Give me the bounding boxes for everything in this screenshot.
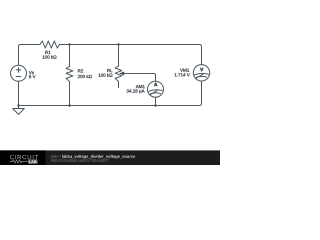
- wire top rail right segment: [60, 45, 202, 65]
- node top RL: [117, 43, 119, 45]
- wire AM1 bottom lead: [155, 97, 157, 105]
- wire top rail left segment: [19, 45, 41, 66]
- resistor R1: [40, 41, 60, 48]
- circuit schematic canvas: [0, 0, 220, 165]
- wire RL top lead: [118, 45, 120, 67]
- value RL 100 kOhm: [99, 73, 113, 76]
- wire R2 top lead: [69, 45, 71, 67]
- logo badge LAB box: [28, 159, 38, 164]
- resistor R2: [66, 67, 73, 82]
- value R1 100 kOhm: [43, 55, 57, 58]
- footer circuit name: [62, 155, 135, 159]
- label R1: [45, 51, 50, 54]
- node bottom R2: [68, 104, 70, 106]
- RL bottom stub: [118, 82, 120, 88]
- label AM1: [136, 85, 145, 88]
- wire left rail lower: [18, 81, 20, 105]
- ground: [13, 106, 25, 115]
- logo box: [0, 150, 46, 165]
- wire R2 bottom lead: [69, 82, 71, 106]
- voltmeter VM1: [193, 65, 209, 81]
- node ground tap: [17, 104, 19, 106]
- potentiometer RL: [115, 66, 122, 82]
- value VM1 1.714 V: [175, 73, 190, 76]
- ammeter letter A: [154, 83, 157, 86]
- logo resistor glyph: [10, 160, 28, 163]
- value Vs 6 V: [29, 75, 35, 78]
- logo badge LAB text: [29, 160, 37, 163]
- wire RL wiper to ammeter: [124, 74, 156, 82]
- wire bottom rail: [19, 81, 202, 106]
- footer bar: [0, 150, 220, 165]
- logo word CIRCUIT: [10, 155, 38, 159]
- RL wiper arrow: [119, 72, 124, 76]
- value R2 200 kOhm: [78, 75, 92, 78]
- node top R2: [68, 43, 70, 45]
- voltmeter letter V: [200, 68, 203, 71]
- node bottom AM1: [154, 104, 156, 106]
- label RL: [107, 69, 112, 72]
- voltage source Vs: [11, 65, 27, 81]
- value AM1 34.28 uA: [127, 89, 145, 93]
- label R2: [78, 69, 83, 72]
- footer url: [51, 159, 109, 163]
- label Vs: [29, 71, 34, 74]
- label VM1: [180, 69, 189, 72]
- ammeter AM1: [148, 81, 164, 97]
- footer author: [51, 155, 61, 158]
